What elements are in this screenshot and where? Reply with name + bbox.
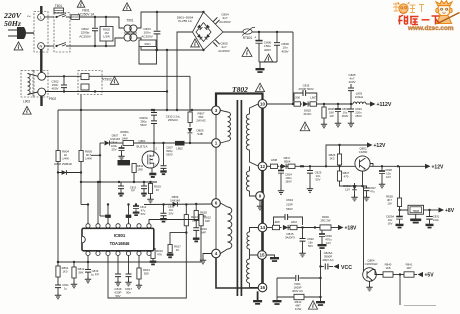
wire mains to control rail x167	[166, 50, 168, 110]
svg-text:1N4148: 1N4148	[170, 198, 180, 202]
T802 pin 15	[258, 251, 267, 260]
resistor R802 box	[100, 27, 113, 42]
resistor R827	[339, 166, 341, 171]
svg-text:C1815GR: C1815GR	[365, 262, 378, 266]
svg-text:400V: 400V	[51, 87, 58, 91]
resistor R840	[383, 272, 393, 277]
resistor R825	[323, 104, 325, 107]
IC801 bottom pin 7	[147, 251, 151, 255]
wire IC pin12 up	[107, 205, 109, 215]
resistor R807 snubber	[188, 112, 192, 123]
svg-text:160V: 160V	[285, 179, 292, 183]
watermark ghost glyphs	[393, 3, 424, 14]
thick secondary bus	[261, 108, 264, 283]
+112V output arrow	[366, 103, 370, 105]
resistor R826	[339, 145, 341, 154]
capacitor C827	[363, 186, 367, 188]
svg-text:R808A: R808A	[120, 130, 128, 134]
switch contact N	[56, 43, 66, 47]
+8V arrow	[439, 207, 445, 212]
svg-text:47K: 47K	[157, 252, 162, 256]
svg-text:N: N	[40, 44, 43, 49]
Y-cap F901 loop	[277, 277, 295, 279]
pin9 ground	[259, 200, 261, 204]
diode D817	[278, 165, 280, 167]
svg-text:1/2W: 1/2W	[103, 35, 110, 39]
svg-text:1/4W: 1/4W	[85, 157, 92, 161]
secondary winding 2	[249, 166, 251, 171]
T802 pin 14	[258, 223, 267, 232]
svg-text:10u: 10u	[388, 218, 393, 222]
svg-text:82K: 82K	[144, 271, 149, 275]
svg-text:1u P.P: 1u P.P	[91, 272, 99, 276]
svg-text:+5V: +5V	[425, 273, 435, 279]
svg-text:C1890: C1890	[359, 150, 368, 154]
primary ground node	[259, 61, 277, 63]
resistor R812	[73, 262, 75, 267]
wire T901 out bottom	[137, 38, 204, 50]
resistor R819	[150, 182, 152, 184]
wire T901 out top	[137, 12, 204, 28]
wire source to ground	[151, 168, 153, 173]
secondary winding 1	[250, 104, 259, 114]
svg-text:16: 16	[260, 285, 266, 290]
svg-text:64P: 64P	[201, 230, 206, 234]
svg-text:1W: 1W	[387, 201, 392, 205]
IC801 bottom pin 2	[96, 251, 100, 255]
svg-text:+12V: +12V	[432, 164, 444, 170]
svg-text:1/2W: 1/2W	[295, 307, 302, 311]
wire 18V rail to arrow	[297, 227, 320, 229]
primary winding	[220, 110, 227, 112]
svg-text:C812: C812	[140, 205, 147, 209]
svg-text:AC250V: AC250V	[79, 34, 91, 38]
capacitor C825b	[309, 166, 311, 170]
capacitor C818	[163, 205, 165, 213]
resistor R841	[404, 272, 414, 277]
svg-text:100uH: 100uH	[355, 95, 364, 99]
switch S901 box	[139, 40, 156, 47]
resistor R829	[320, 225, 331, 230]
svg-text:4R7: 4R7	[406, 266, 412, 270]
wire pin1-pin6	[215, 147, 217, 198]
svg-text:64P: 64P	[205, 219, 210, 223]
svg-text:BUZ71A: BUZ71A	[137, 144, 148, 148]
svg-text:AC250V: AC250V	[219, 20, 231, 24]
wire gate pillar x100	[99, 143, 101, 216]
ground F901 left	[276, 297, 278, 300]
T802 pin 9	[256, 192, 265, 201]
capacitor C803	[156, 12, 158, 31]
capacitor C809	[337, 104, 339, 109]
svg-text:7808: 7808	[412, 209, 419, 213]
svg-text:1K: 1K	[156, 188, 160, 192]
svg-text:www.dzsc.com: www.dzsc.com	[407, 25, 454, 32]
svg-text:VCC: VCC	[341, 265, 352, 271]
warning triangle F801	[77, 0, 85, 7]
MOSFET Q801	[142, 151, 159, 168]
capacitor C822	[302, 228, 304, 239]
thick stub below N to degauss connector	[40, 49, 42, 72]
bridge inner diamond	[196, 23, 211, 42]
svg-text:1: 1	[215, 141, 218, 146]
svg-text:250V: 250V	[355, 114, 362, 118]
capacitor C815	[87, 256, 89, 270]
diode D806	[57, 162, 59, 173]
wire 18V rail	[267, 227, 272, 229]
wire x100 elbow	[100, 215, 108, 217]
svg-text:6: 6	[215, 201, 218, 206]
svg-text:9: 9	[259, 194, 262, 199]
svg-text:C829A: C829A	[386, 215, 394, 219]
wire bottom rail y46	[66, 38, 124, 46]
inductor L807	[309, 103, 311, 105]
warning triangle C808	[264, 54, 272, 62]
capacitor C802	[94, 17, 96, 28]
connector P901	[34, 12, 48, 53]
wire 12V rail to R828	[399, 166, 401, 198]
warning triangle C806	[242, 47, 252, 56]
svg-text:L807: L807	[310, 96, 317, 100]
wire rail to L803	[317, 103, 354, 105]
svg-text:S4B: S4B	[197, 132, 203, 136]
svg-text:50V: 50V	[169, 211, 174, 215]
+5V arrow	[414, 274, 417, 276]
capacitor C828	[381, 166, 383, 170]
resistor R816	[152, 245, 154, 249]
svg-text:47u: 47u	[370, 189, 375, 193]
bypass loop C835	[294, 93, 303, 101]
bridge diode top-left	[197, 25, 202, 30]
svg-text:56K: 56K	[79, 270, 84, 274]
svg-text:C831: C831	[433, 215, 440, 219]
IC801 top pin 14	[86, 224, 90, 228]
warning triangle degauss	[23, 106, 31, 114]
pin15 ground	[266, 255, 274, 257]
svg-text:C818: C818	[168, 205, 175, 209]
T802 pin 3	[212, 106, 221, 115]
svg-text:L808: L808	[271, 158, 278, 162]
resistor R805	[80, 110, 82, 151]
svg-text:400V: 400V	[281, 49, 289, 53]
regulator IC803 7808	[408, 205, 424, 214]
resistor R813	[185, 205, 187, 215]
switch S801 box	[54, 13, 70, 53]
svg-text:630V: 630V	[166, 153, 173, 157]
svg-text:AC250V: AC250V	[218, 49, 230, 53]
svg-text:3K3: 3K3	[330, 156, 335, 160]
svg-text:250VAC: 250VAC	[168, 118, 178, 122]
svg-text:14: 14	[260, 225, 266, 230]
capacitor C810	[151, 121, 157, 124]
svg-text:25V: 25V	[112, 147, 117, 151]
capacitor C804 snubber	[213, 17, 219, 24]
T802 pin 12	[258, 162, 267, 171]
wire N to switch	[44, 45, 54, 47]
pin16 ground stub	[257, 291, 259, 300]
diode D820	[301, 103, 303, 105]
resistor R811	[132, 164, 136, 173]
wire IC pin8 right	[149, 220, 199, 224]
VCC arrow	[334, 264, 340, 269]
svg-text:3A/DFX: 3A/DFX	[285, 236, 295, 240]
svg-text:S901: S901	[144, 42, 151, 46]
capacitor C824	[280, 166, 282, 170]
capacitor C811	[57, 277, 59, 285]
wire L to switch	[44, 16, 54, 18]
svg-text:AC250V 1A: AC250V 1A	[78, 12, 96, 16]
IC801 bottom pin 4	[116, 251, 120, 255]
svg-text:IC801: IC801	[114, 233, 126, 238]
regulator ground	[415, 214, 417, 218]
diode D807	[105, 141, 110, 146]
Q804 emitter ground	[369, 281, 371, 285]
svg-text:100n: 100n	[433, 218, 439, 222]
transistor Q804	[363, 268, 377, 282]
ground F901 right	[320, 297, 322, 301]
warning triangle RT902	[110, 77, 118, 85]
svg-text:TDA16846: TDA16846	[110, 241, 131, 246]
svg-text:1K: 1K	[176, 248, 180, 252]
warning triangle T802	[255, 83, 264, 91]
bridge diode bottom-left	[197, 34, 202, 39]
svg-text:15: 15	[259, 253, 265, 258]
svg-text:3: 3	[215, 108, 218, 113]
svg-text:+8V: +8V	[445, 208, 455, 214]
svg-text:16V: 16V	[388, 221, 393, 225]
posistor RT902	[78, 71, 102, 95]
wire B+ down to rectifier rail	[292, 32, 294, 104]
wire pin6-pin4	[215, 207, 217, 249]
svg-text:L903: L903	[23, 100, 30, 104]
svg-text:+12V: +12V	[374, 143, 386, 149]
wire IC pin10 up	[128, 205, 130, 215]
diode D815	[280, 227, 282, 229]
transistor Q802	[355, 156, 370, 171]
svg-text:400V: 400V	[264, 48, 272, 52]
IC801 top pin 10	[126, 224, 130, 228]
svg-text:1/4W: 1/4W	[62, 157, 69, 161]
capacitor C808	[276, 32, 278, 42]
resistor R808A	[123, 141, 134, 146]
inductor L906	[294, 102, 301, 106]
connector P902	[33, 71, 48, 98]
fuse F801	[71, 15, 80, 20]
wire top rail y17	[66, 16, 71, 18]
svg-text:1K8: 1K8	[386, 266, 391, 270]
capacitor C812	[135, 205, 137, 206]
IC801 bottom pin 1	[86, 251, 90, 255]
wire R813 to bottom loop	[108, 226, 186, 298]
wire 112V rail	[267, 103, 294, 105]
warning triangle 112V	[300, 122, 310, 131]
capacitor C813	[143, 182, 145, 186]
IC801 top pin 11	[116, 224, 120, 228]
svg-text:T801: T801	[55, 4, 62, 8]
wire sense down	[399, 275, 401, 306]
IC801 top pin 9	[137, 224, 141, 228]
svg-text:C834: C834	[286, 198, 293, 202]
watermark mascot main	[438, 3, 451, 16]
bridge diode bottom-right	[205, 34, 210, 39]
svg-text:2R2 2W: 2R2 2W	[320, 219, 330, 223]
svg-text:RU3C: RU3C	[304, 112, 312, 116]
warning triangle bridge	[191, 39, 200, 47]
+12V output arrow	[425, 164, 431, 169]
capacitor C805 snubber	[213, 40, 219, 47]
stub y155	[91, 154, 100, 156]
T802 pin 4	[212, 249, 221, 258]
IC801 bottom pin 5	[126, 251, 130, 255]
svg-text:560V: 560V	[286, 207, 293, 211]
watermark stick	[438, 13, 460, 24]
T802 pin 1	[212, 139, 221, 148]
resistor R828	[397, 198, 401, 207]
svg-text:T901: T901	[126, 19, 133, 23]
wire sense y182	[81, 181, 157, 183]
inductor L802 bead	[175, 141, 185, 146]
wire IC pin14 up-left	[87, 205, 89, 224]
svg-text:50V: 50V	[141, 212, 146, 216]
thick primary bracket	[216, 94, 263, 107]
capacitor C806 main filter	[258, 32, 260, 40]
wire degauss top to rail	[189, 76, 191, 110]
svg-text:560V: 560V	[140, 123, 147, 127]
inductor L810	[289, 227, 291, 229]
T802 pin 10	[258, 100, 267, 109]
IC801 TDA16846 package	[82, 228, 154, 251]
svg-text:L802: L802	[176, 147, 183, 151]
svg-text:1/4W: 1/4W	[121, 137, 128, 141]
svg-text:10: 10	[260, 101, 266, 106]
wire to R841	[393, 274, 404, 276]
wire S901 loop	[139, 47, 157, 65]
svg-text:400V AC: 400V AC	[292, 289, 303, 293]
watermark text weiku	[398, 15, 440, 25]
fuse T801	[54, 8, 64, 13]
svg-text:AC250V: AC250V	[141, 34, 153, 38]
+18V arrow	[331, 227, 338, 229]
bridge diode top-right	[205, 25, 210, 30]
svg-text:Q801: Q801	[138, 139, 145, 143]
wire bridge minus	[177, 32, 193, 110]
wire gate vertical	[153, 143, 155, 152]
svg-text:470: 470	[344, 174, 349, 178]
svg-text:4: 4	[215, 251, 218, 256]
degauss coil L903	[21, 71, 34, 98]
wire base feed Q804	[363, 186, 365, 272]
secondary winding 3	[250, 228, 259, 233]
svg-text:16V: 16V	[386, 175, 391, 179]
svg-text:47u: 47u	[141, 208, 146, 212]
zener D821A	[354, 183, 356, 186]
svg-text:50V: 50V	[316, 177, 321, 181]
T802 pin 6	[212, 199, 221, 208]
svg-text:400V: 400V	[348, 80, 355, 84]
inductor L808a	[271, 164, 278, 168]
wire pin4 down to pin16	[216, 258, 258, 288]
capacitor C820A	[153, 110, 155, 112]
cap bead C841	[126, 215, 132, 218]
svg-text:P.P: P.P	[131, 189, 135, 193]
bridge outer loop	[193, 12, 224, 50]
T802 pin 16	[258, 283, 267, 292]
svg-text:10n: 10n	[169, 208, 174, 212]
secondary winding 4	[249, 255, 251, 259]
wire Q804 collector	[373, 270, 384, 275]
IC801 bottom pin 3	[106, 251, 110, 255]
svg-text:SB04: SB04	[284, 159, 291, 163]
switch contact L	[56, 14, 66, 18]
svg-text:50Hz: 50Hz	[4, 19, 21, 28]
warning triangle F901	[308, 301, 317, 309]
svg-text:10: 10	[123, 133, 126, 137]
capacitor C823	[350, 104, 352, 109]
wire 12V reg top	[326, 145, 367, 166]
resistor R801	[57, 262, 59, 266]
svg-text:250V: 250V	[342, 114, 349, 118]
inductor L808	[273, 225, 280, 229]
warning triangle near plug	[14, 42, 23, 50]
capacitor C817	[128, 256, 130, 274]
resistor R804	[57, 110, 59, 151]
capacitor C819	[193, 228, 199, 231]
svg-text:L810: L810	[291, 220, 298, 224]
resistor R814	[138, 256, 140, 269]
svg-text:400V AC: 400V AC	[322, 258, 333, 262]
IC801 top pin 8	[147, 224, 151, 228]
transformer core	[236, 100, 238, 296]
capacitor C807	[163, 143, 165, 165]
wire B+ rail	[252, 31, 293, 33]
svg-text:50V: 50V	[308, 244, 313, 248]
wire degauss line top	[46, 75, 81, 77]
svg-text:50V: 50V	[115, 294, 120, 298]
diode D809	[173, 202, 178, 207]
svg-text:KL255 1A: KL255 1A	[178, 19, 193, 23]
wire feedback y204	[81, 204, 88, 206]
svg-text:1K0: 1K0	[63, 269, 68, 273]
svg-text:16V: 16V	[326, 241, 331, 245]
capacitor C830	[321, 230, 323, 233]
capacitor C814A	[120, 182, 122, 186]
watermark mascot small	[399, 4, 408, 13]
wire x58 down to IC area	[57, 173, 59, 263]
capacitor C816	[117, 256, 119, 274]
svg-text:+18V: +18V	[345, 226, 357, 232]
resistor R817	[170, 233, 186, 245]
warning triangle T901	[123, 3, 131, 11]
bead L801	[118, 160, 131, 165]
inductor L809a	[287, 165, 289, 167]
svg-text:RT801: RT801	[243, 36, 253, 40]
svg-text:+112V: +112V	[377, 102, 392, 108]
svg-text:2W M2: 2W M2	[196, 119, 206, 123]
svg-text:12: 12	[260, 164, 266, 169]
svg-text:1W: 1W	[329, 114, 334, 118]
capacitor C829A	[399, 210, 401, 216]
wire pin3-pin1	[215, 115, 217, 139]
inductor L803	[353, 102, 366, 104]
svg-text:12V: 12V	[345, 187, 350, 191]
resistor R815	[199, 215, 203, 226]
diode D805	[188, 128, 193, 133]
wire Q802 emitter rail	[370, 164, 425, 167]
wire gate drive y143	[100, 142, 104, 144]
svg-text:RT902: RT902	[102, 78, 112, 82]
bypass loop C834	[274, 217, 285, 225]
thick stub below P902	[40, 96, 42, 106]
